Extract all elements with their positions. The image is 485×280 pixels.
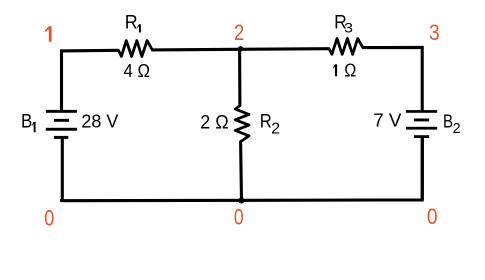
label B2 subscript 2 [453, 121, 461, 137]
node label 0 left (orange) [44, 207, 54, 231]
svg-text:0: 0 [44, 207, 54, 231]
node label 1 (orange) [45, 26, 52, 41]
resistor R1 zigzag [119, 41, 153, 57]
svg-text:4 Ω: 4 Ω [124, 60, 150, 81]
svg-text:B: B [443, 111, 453, 132]
wire battery B1 bottom to bottom wire [61, 137, 64, 201]
svg-text:B: B [21, 111, 32, 132]
resistor R3 zigzag [329, 39, 363, 55]
svg-text:28 V: 28 V [81, 111, 119, 131]
label 2 ohm [200, 111, 229, 133]
label B1 subscript 1 [32, 122, 35, 132]
node label 2 (orange) [234, 20, 244, 45]
label R3 [334, 11, 347, 33]
node label 0 right (orange) [427, 205, 438, 230]
svg-text:2 Ω: 2 Ω [200, 111, 229, 133]
label R1 subscript 1 [137, 24, 141, 32]
svg-text:2: 2 [234, 20, 244, 45]
wire top-right segment (R3 to node3 corner) [363, 47, 422, 110]
label R1 [125, 11, 138, 33]
wire R2 down to bottom junction [239, 142, 243, 201]
battery B2 plate 2 (short) [414, 119, 429, 122]
label 28 V [81, 111, 119, 131]
svg-text:R: R [260, 110, 272, 131]
label R3 subscript 3 [344, 20, 353, 36]
label B2 [443, 111, 453, 132]
label R2 [260, 110, 272, 131]
node 2 junction dot (top) [238, 46, 243, 51]
battery B1 plate 3 (long) [46, 128, 77, 131]
svg-text:3: 3 [429, 21, 440, 46]
node label 3 (orange) [429, 21, 440, 46]
label 4 ohm [124, 60, 150, 81]
battery B1 plate 1 (long, top) [46, 110, 77, 113]
wire top-left segment (node1 corner to R1) [62, 50, 119, 111]
svg-text:2: 2 [453, 121, 461, 137]
wire top-middle segment (R1 to R3 through node 2) [152, 49, 329, 50]
wire node2 down to R2 [238, 49, 241, 106]
battery B2 plate 3 (long) [406, 127, 437, 130]
svg-text:R: R [125, 11, 138, 33]
bottom junction dot (node 0) [239, 198, 245, 204]
svg-text:0: 0 [234, 206, 244, 231]
svg-text:Ω: Ω [344, 59, 356, 80]
resistor R2 zigzag (vertical) [235, 106, 249, 142]
wire battery B2 bottom stub [421, 138, 424, 200]
label 1 ohm [333, 64, 337, 76]
battery B1 plate 4 (short, bottom) [54, 136, 68, 139]
battery B2 plate 4 (short, bottom) [414, 135, 429, 138]
battery B1 plate 2 (short) [54, 119, 69, 122]
label R2 subscript 2 [271, 121, 280, 138]
label B1 [21, 111, 32, 132]
svg-text:7 V: 7 V [373, 110, 402, 131]
node label 0 middle (orange) [234, 206, 244, 231]
battery B2 plate 1 (long, top) [406, 110, 437, 113]
svg-text:0: 0 [427, 205, 438, 230]
label 1-ohm omega [344, 59, 356, 80]
svg-text:2: 2 [271, 121, 280, 138]
svg-text:3: 3 [344, 20, 353, 36]
bottom wire [62, 137, 423, 202]
label 7 V [373, 110, 402, 131]
